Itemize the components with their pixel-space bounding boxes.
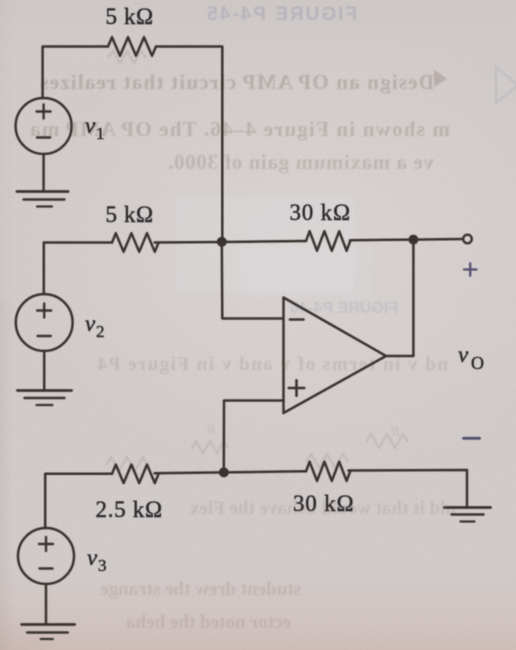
wire 30k to output node (350, 238, 413, 241)
ground v3 (22, 623, 75, 626)
wire v2 top left (44, 243, 112, 295)
resistor 2.5k (112, 465, 159, 484)
+/- marks in sources (37, 105, 305, 569)
output terminal open circle (463, 235, 472, 244)
wire top loop: v1 top to resistor (43, 47, 108, 99)
wire junction B to 30k bottom (224, 471, 306, 472)
output node dot (408, 235, 418, 245)
wire v3 top to 2.5k (45, 474, 112, 529)
voltage source v2 (16, 294, 73, 351)
wire v1 to ground (42, 154, 45, 191)
wire junction to 30k (222, 241, 306, 242)
ground v1 (17, 190, 68, 193)
wire resistor to right rail (156, 47, 222, 243)
v1 plus (37, 105, 51, 119)
junction node B dot (219, 467, 229, 477)
v3 plus (39, 537, 53, 551)
op-amp U1 triangle (284, 298, 387, 414)
op-amp minus sign (290, 318, 304, 321)
v2 minus (38, 335, 51, 337)
wire node A down to inverting input (222, 242, 283, 319)
v3 minus (39, 567, 52, 569)
wire 2.5k to junction B (155, 471, 224, 474)
junction node A dot (217, 237, 227, 247)
ground v2 (18, 389, 72, 392)
resistor 30k row2 (306, 231, 350, 251)
ground right (445, 506, 491, 509)
op-amp plus sign (289, 380, 304, 395)
v2 plus (37, 304, 51, 318)
wire v2 to ground (43, 351, 46, 390)
wire 30k to right ground (348, 470, 467, 507)
output +/- terminal marks (464, 263, 480, 438)
wire noninverting input (224, 401, 284, 473)
v1 minus (37, 136, 50, 138)
minus near bottom right (464, 437, 480, 440)
resistor 30k bottom (306, 462, 350, 481)
voltage source v1 (16, 98, 72, 154)
wire output node to terminal (413, 238, 462, 241)
resistor R 5k top (108, 37, 156, 56)
faint bleed figure box (176, 196, 372, 298)
wire v3 to ground (45, 584, 48, 624)
plus near output terminal (464, 263, 477, 275)
wire to junction node A (155, 241, 222, 244)
voltage source v3 (18, 528, 74, 584)
wire op-amp output (386, 240, 413, 356)
resistor 5k row2 (112, 233, 159, 252)
